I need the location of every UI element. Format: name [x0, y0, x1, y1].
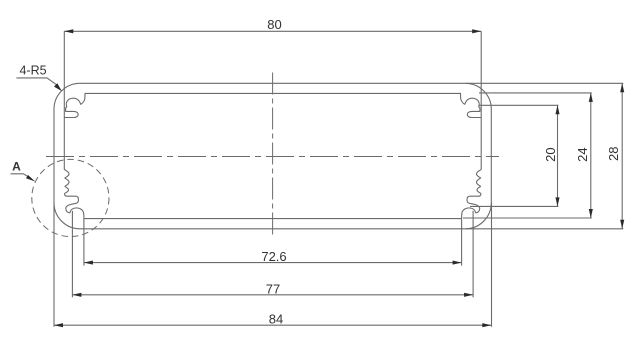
svg-text:80: 80 — [267, 17, 281, 32]
svg-text:A: A — [12, 160, 21, 174]
svg-text:4-R5: 4-R5 — [19, 64, 46, 78]
svg-text:77: 77 — [266, 281, 280, 296]
svg-text:24: 24 — [575, 147, 590, 161]
svg-text:84: 84 — [269, 312, 283, 327]
svg-text:28: 28 — [606, 147, 621, 161]
svg-text:72.6: 72.6 — [261, 249, 286, 264]
svg-text:20: 20 — [543, 147, 558, 161]
